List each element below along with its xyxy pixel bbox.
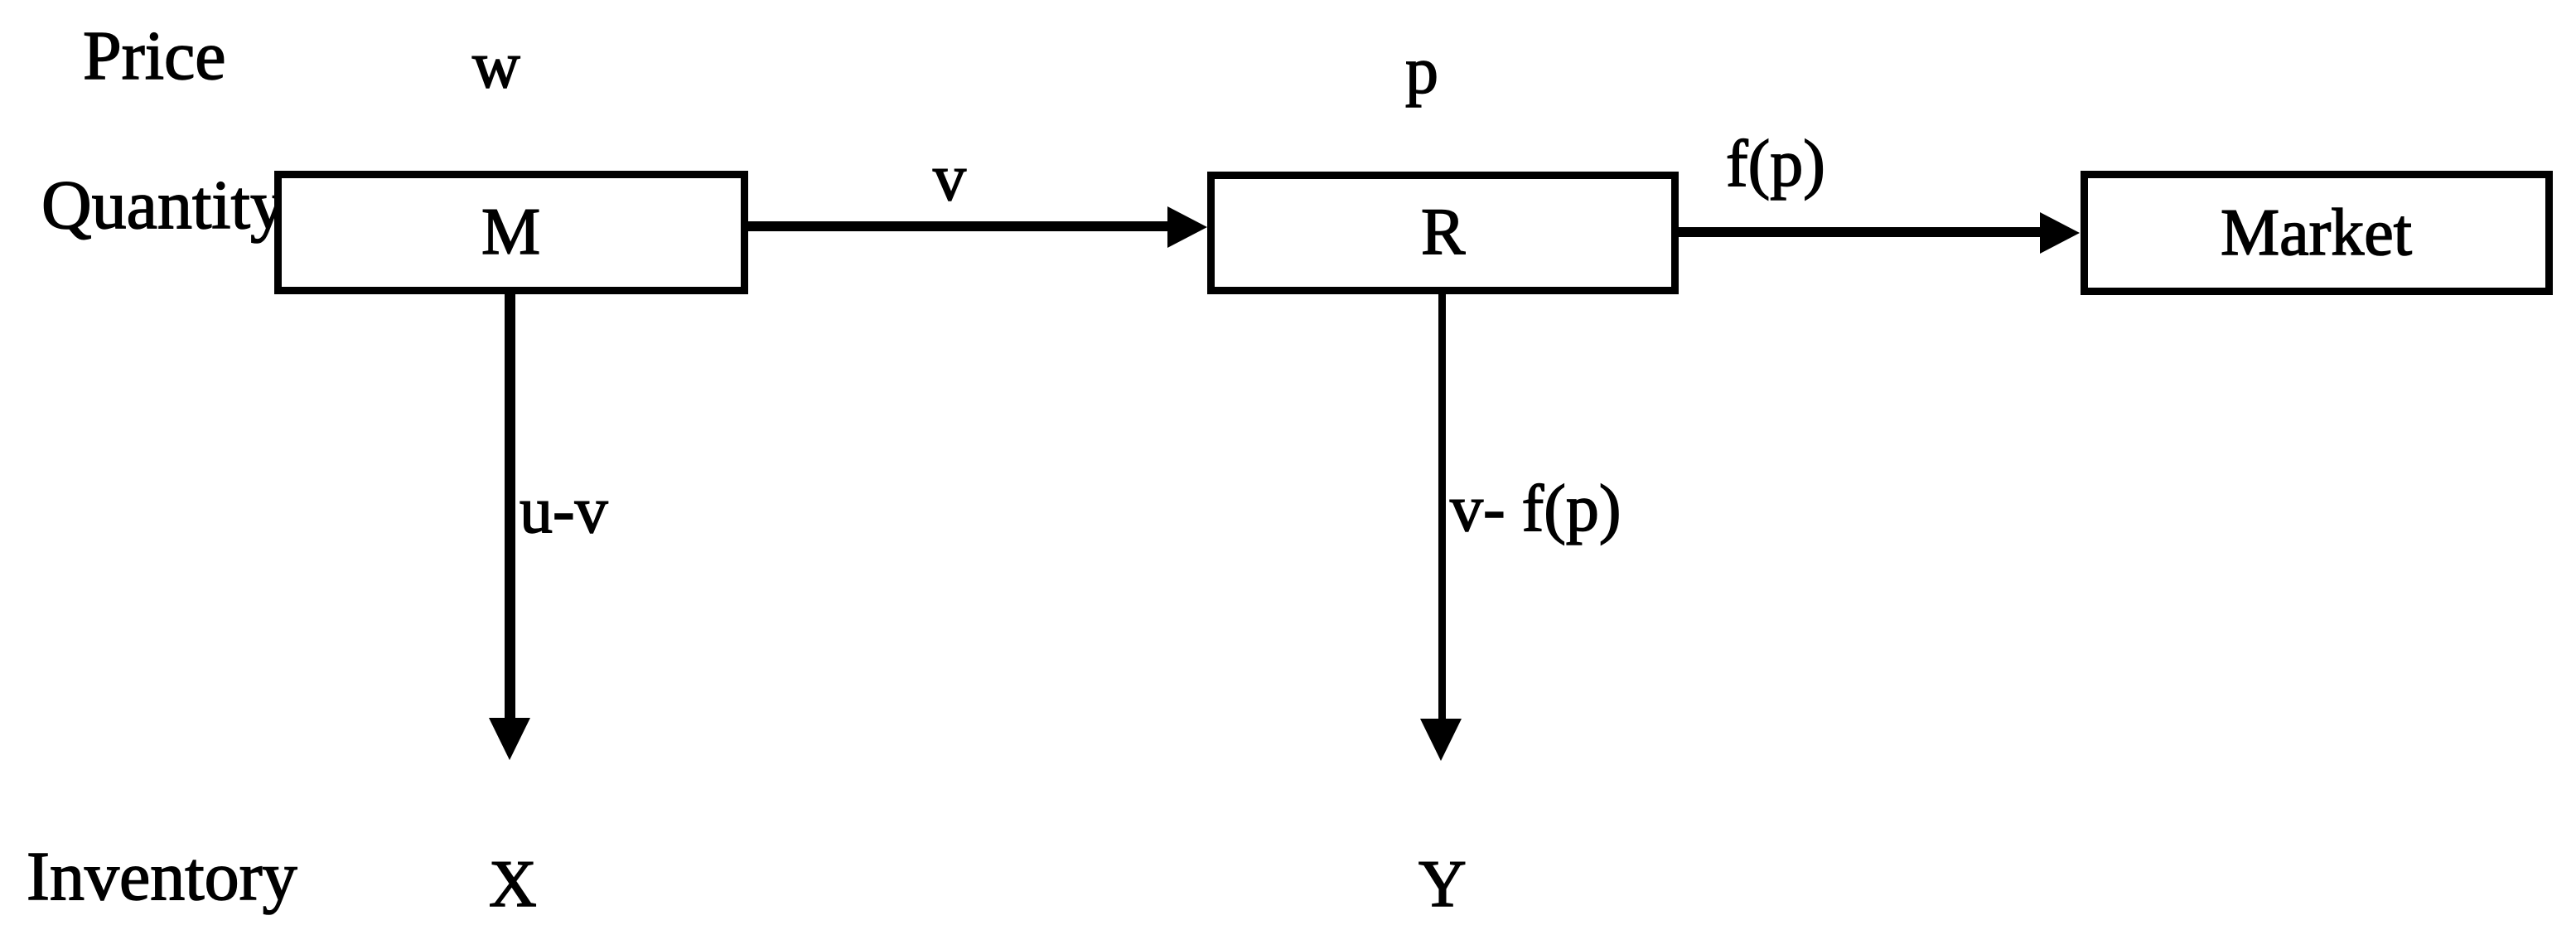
label Market [2221, 200, 2412, 266]
label Quantity [41, 171, 285, 240]
label w [472, 32, 520, 99]
label f(p) [1726, 131, 1825, 197]
label Price [83, 22, 226, 91]
wire R down [1438, 294, 1446, 719]
arrowhead into Market [2040, 212, 2080, 254]
arrowhead down to X [489, 718, 530, 760]
box R [1207, 172, 1679, 294]
label X [489, 851, 537, 918]
box M [274, 171, 748, 294]
box Market [2081, 171, 2553, 295]
arrowhead into R [1167, 206, 1207, 248]
label v [933, 145, 966, 211]
label Y [1418, 851, 1467, 918]
wire R to Market [1679, 227, 2041, 237]
label v- f(p) [1450, 476, 1621, 542]
arrowhead down to Y [1420, 719, 1462, 761]
label p [1405, 38, 1438, 104]
wire M to R [748, 221, 1168, 231]
label R [1421, 199, 1465, 265]
label u-v [520, 477, 608, 544]
label M [481, 199, 540, 265]
wire M down [505, 294, 515, 718]
label Inventory [27, 842, 297, 912]
